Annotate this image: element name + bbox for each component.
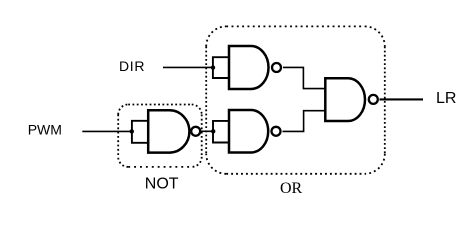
NAND gate U4 (OR block output) [325,78,378,121]
svg-text:OR: OR [280,180,303,197]
svg-text:PWM: PWM [28,122,62,138]
tied-input bracket U2 [132,121,148,143]
NAND gate U2 (PWM inverter, NOT block) [148,110,200,152]
junction dot PWM input tie [130,129,134,133]
label NOT block [145,176,179,193]
wire U2 output to U3 input [201,130,213,132]
NAND gate U1 (DIR inverter) [229,46,281,89]
junction dot DIR input tie [211,65,215,69]
tied-input bracket U3 [213,121,229,143]
OR block dotted box [206,26,385,173]
wire U1 output to U4 upper input [283,67,325,88]
NAND gate U3 (inverter, OR block lower) [229,110,281,153]
svg-text:LR: LR [436,90,456,107]
svg-text:NOT: NOT [145,176,179,193]
node DIR label [119,58,145,74]
svg-text:DIR: DIR [119,58,145,74]
node LR label [436,90,456,107]
tied-input bracket U1 [213,57,229,78]
label OR block [280,180,303,197]
NOT block dotted box [118,105,202,167]
wire DIR to U1 input [163,66,213,68]
wire PWM to U2 input [82,130,132,132]
wire U3 output to U4 lower input [283,111,326,132]
node PWM label [28,122,62,138]
junction dot U3 input tie [211,129,215,133]
wire U4 output to LR [380,98,424,100]
